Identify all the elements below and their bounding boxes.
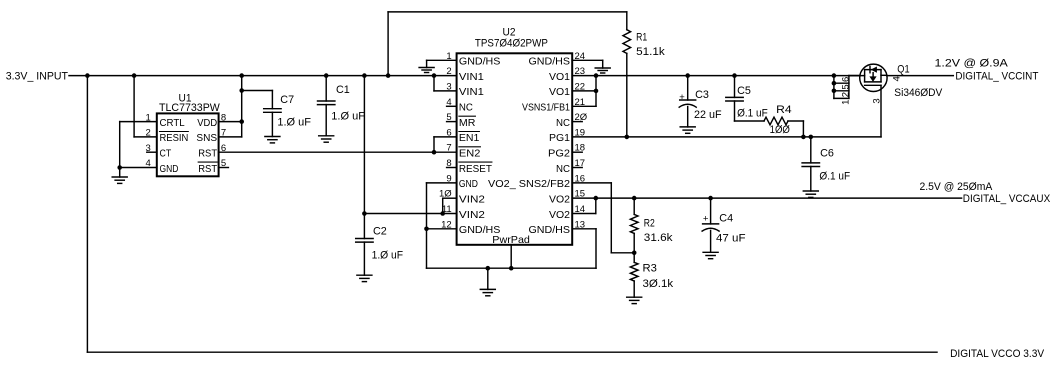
svg-text:VIN1: VIN1 [459,71,484,83]
U2 pin numbers left [439,51,452,231]
U1 overlines RESIN and RST [160,132,218,163]
wire C3 lead [687,76,689,100]
svg-text:1: 1 [840,100,851,105]
label C7 [277,94,311,129]
U2 pin numbers right [575,51,588,231]
wire R4 to PG1 line [788,121,803,137]
svg-text:RESET: RESET [459,163,493,175]
wire U2 VO1 pin22 / VSNS1 pin21 tie [572,76,596,107]
wire bottom ground bus [427,267,597,269]
wire C7 branch [242,91,273,109]
svg-text:23: 23 [575,66,586,77]
svg-text:6: 6 [840,77,851,82]
transistor Q1 [849,64,887,91]
U2 pin names right [488,56,570,237]
svg-text:R3: R3 [643,263,657,275]
wire 3.3V input rail [69,75,457,77]
svg-text:EN1: EN1 [459,132,480,144]
wire U1 GND pin4 [120,167,157,169]
svg-text:DIGITAL VCCO 3.3V: DIGITAL VCCO 3.3V [950,348,1045,360]
resistor R2 [630,198,638,253]
wire C6 to ground [810,167,812,192]
wire Q1 drain to VCCINT [887,75,954,77]
node DIGITAL VCCO 3.3V [950,348,1045,360]
wire C6 lead [810,137,812,163]
svg-text:6: 6 [221,143,226,154]
wire U2 VIN2 pin11 [364,213,456,215]
wire U1 RESIN riser [134,76,157,137]
op-amp U2 TPS70402PWP body [457,53,573,245]
wire U2 VO2 pin14 riser [572,198,596,213]
svg-text:14: 14 [575,204,586,215]
wire U2 VIN1 pin3 riser [434,76,457,91]
svg-text:12: 12 [441,219,452,230]
svg-text:DIGITAL_ VCCINT: DIGITAL_ VCCINT [955,71,1038,83]
svg-text:51.1k: 51.1k [636,46,665,58]
svg-text:Si346ØDV: Si346ØDV [894,87,943,99]
U1 pin numbers right [221,112,226,169]
svg-text:+: + [679,92,685,103]
U2 pin names left [459,56,501,237]
svg-text:16: 16 [575,173,586,184]
wire U2 GND/HS pin24 [572,60,603,68]
svg-text:GND: GND [160,163,179,175]
wire C4 to ground [710,230,712,252]
svg-text:2: 2 [146,128,151,139]
svg-text:Ø.1 uF: Ø.1 uF [819,170,850,182]
svg-text:3: 3 [446,81,451,92]
svg-text:R2: R2 [644,218,655,230]
svg-text:C6: C6 [820,147,834,159]
wire C3 to ground [687,107,689,127]
label Q1 [894,63,943,99]
ground bottom bus [480,268,495,296]
svg-text:GND/HS: GND/HS [529,56,571,68]
ground C6 [803,191,818,197]
svg-text:VO1: VO1 [549,86,570,98]
svg-text:31.6k: 31.6k [644,232,673,244]
svg-text:GND: GND [459,178,478,190]
wire VIN2 vertical (rail to C2) [363,76,365,239]
svg-text:1.Ø uF: 1.Ø uF [277,117,311,129]
svg-text:TPS7Ø4Ø2PWP: TPS7Ø4Ø2PWP [475,38,548,50]
svg-text:19: 19 [575,127,586,138]
ground R3 [627,297,642,303]
label C3 [679,89,722,121]
svg-text:VO2: VO2 [549,194,570,206]
resistor R3 [630,253,638,297]
svg-text:U2: U2 [503,26,516,38]
svg-text:2Ø: 2Ø [575,112,588,123]
svg-text:GND/HS: GND/HS [529,224,571,236]
U2 pin 5 stub [447,121,457,123]
wire top feed to R1 [388,12,627,76]
svg-text:1.2V @ Ø.9A: 1.2V @ Ø.9A [935,57,1009,69]
svg-text:NC: NC [459,102,473,114]
node DIGITAL_ VCCINT [935,57,1039,82]
ground U2 pin24 [595,68,610,73]
svg-text:7: 7 [221,128,226,139]
svg-text:22 uF: 22 uF [694,109,722,121]
label C6 [819,147,850,182]
wire C5 lead [734,76,736,98]
svg-text:1.Ø uF: 1.Ø uF [372,250,404,262]
resistor R1 [623,30,631,54]
svg-text:2: 2 [446,66,451,77]
label C2 [372,226,404,262]
wire PwrPad stub [510,245,512,268]
U1 pin numbers left [146,112,151,169]
svg-text:17: 17 [575,158,586,169]
svg-text:1: 1 [446,51,451,62]
svg-text:21: 21 [575,97,586,108]
wire VO2 rail [572,197,961,199]
svg-text:VO1: VO1 [549,71,570,83]
svg-text:1.Ø uF: 1.Ø uF [331,111,365,123]
svg-text:R1: R1 [636,32,647,44]
wire U2 GND/HS pin13 [572,229,596,268]
svg-text:2: 2 [840,92,851,97]
svg-text:4: 4 [892,76,903,81]
node DIGITAL_ VCCAUX [920,181,1051,205]
wire U1 CRTL to ground [120,122,157,168]
capacitor C3 (polarized) [679,100,696,107]
label R2 [644,218,673,244]
wire C2 to ground [363,242,365,275]
wire C1 to ground [325,105,327,136]
svg-text:GND/HS: GND/HS [459,56,501,68]
svg-text:VIN1: VIN1 [459,86,484,98]
wire PG1 line [572,136,881,138]
svg-text:MR: MR [459,117,476,129]
svg-text:PG1: PG1 [549,132,570,144]
svg-text:TLC7733PW: TLC7733PW [159,102,221,114]
op-amp U1 TLC7733PW body [157,113,219,176]
svg-text:VIN2: VIN2 [459,194,485,206]
label R1 [636,32,665,58]
svg-text:4: 4 [446,97,451,108]
svg-text:C7: C7 [280,94,294,106]
U1 pin 3 stub [147,151,157,153]
ground C2 [357,275,372,281]
ground U1 [112,168,127,184]
svg-text:DIGITAL_ VCCAUX: DIGITAL_ VCCAUX [963,193,1050,205]
wire drop to DIGITAL VCCO rail [86,76,88,353]
label C5 [737,85,768,120]
U2 overlines MR EN1 EN2 RESET [459,116,492,162]
svg-text:VO2_ SNS2/FB2: VO2_ SNS2/FB2 [488,178,570,190]
svg-text:1ØØ: 1ØØ [770,124,791,136]
svg-text:9: 9 [446,173,451,184]
svg-text:8: 8 [446,158,451,169]
svg-text:PG2: PG2 [548,148,570,160]
svg-text:+: + [703,214,709,225]
svg-text:SNS: SNS [196,132,217,144]
svg-text:CRTL: CRTL [160,117,185,129]
label U2 [475,26,548,246]
svg-text:8: 8 [221,112,226,123]
svg-text:RESIN: RESIN [160,132,189,144]
svg-text:5: 5 [840,84,851,89]
svg-text:R4: R4 [776,104,792,116]
wire R1 to PG1 line [626,53,628,136]
svg-text:47 uF: 47 uF [716,232,746,244]
ground U2 pin1 [419,68,434,73]
wire C7 to ground [271,112,273,136]
label C1 [331,84,365,123]
label C4 [703,213,746,245]
svg-text:RST: RST [198,148,217,160]
svg-text:C2: C2 [373,226,387,238]
U2 pin 8 stub [447,167,457,169]
svg-text:Ø.1 uF: Ø.1 uF [737,108,768,120]
U2 pin 4 stub [447,105,457,107]
svg-text:6: 6 [446,127,451,138]
svg-text:NC: NC [556,163,570,175]
svg-text:13: 13 [575,219,586,230]
capacitor C6 [802,163,819,167]
svg-text:C4: C4 [719,213,733,225]
svg-text:5: 5 [446,112,451,123]
ground C4 [703,252,718,258]
svg-text:C5: C5 [737,85,751,97]
svg-text:3: 3 [146,143,151,154]
svg-text:4: 4 [146,158,151,169]
capacitor C7 [264,109,281,113]
U1 pin names [160,117,218,175]
svg-text:VO2: VO2 [549,209,570,221]
svg-text:VSNS1/FB1: VSNS1/FB1 [522,102,570,114]
svg-text:C1: C1 [336,84,350,96]
svg-text:VDD: VDD [197,117,217,129]
wire Q1 source ladder [834,76,860,99]
svg-text:1Ø: 1Ø [439,189,452,200]
wire C5 to R4 [735,101,765,121]
U2 pin 18 stub [572,151,582,153]
wire Q1 gate to PG1 [880,85,882,137]
wire U2 EN1 pin6 [434,137,457,152]
svg-text:GND/HS: GND/HS [459,224,501,236]
label Q1 pin numbers [840,76,902,105]
capacitor C1 [318,101,335,105]
resistor R4 [764,117,788,125]
svg-text:CT: CT [160,148,172,160]
svg-text:RST: RST [198,163,217,175]
wire U1 VDD pin8 [219,121,242,123]
svg-text:3Ø.1k: 3Ø.1k [643,278,674,290]
wire VO1 rail [572,75,860,77]
svg-text:7: 7 [446,143,451,154]
wire DIGITAL VCCO 3.3V rail [87,351,937,353]
wire U2 VIN2 pin10 riser [443,198,457,213]
svg-text:3.3V_ INPUT: 3.3V_ INPUT [6,71,69,83]
ground C1 [319,136,334,142]
U2 pin 20 stub [572,121,582,123]
label U1 [159,92,221,114]
svg-text:18: 18 [575,143,586,154]
wire C1 lead [325,76,327,101]
capacitor C2 [356,239,373,243]
wire U2 GND pin9 down [427,183,457,268]
svg-text:C3: C3 [695,89,709,101]
ground C7 [265,137,280,143]
label R4 [770,104,792,136]
wire U1 SNS pin7 to rail [219,76,242,137]
svg-text:Q1: Q1 [897,63,909,75]
svg-text:15: 15 [575,189,586,200]
U1 pin 5 stub [219,167,229,169]
svg-text:VIN2: VIN2 [459,209,485,221]
wire U2 GND/HS pin1 [427,60,457,67]
wire C4 lead [710,198,712,224]
capacitor C5 [726,97,743,101]
wire U2 GND/HS pin12 [427,228,457,230]
svg-text:5: 5 [221,158,226,169]
svg-text:2.5V @ 25ØmA: 2.5V @ 25ØmA [920,181,994,193]
node 3.3V_ INPUT [6,71,69,83]
wire U2 SNS2/FB2 pin16 to divider [572,183,634,253]
svg-text:NC: NC [556,117,570,129]
svg-text:24: 24 [575,51,586,62]
svg-text:EN2: EN2 [459,148,481,160]
svg-text:1: 1 [146,112,151,123]
ground C3 [680,127,695,133]
capacitor C4 (polarized) [702,224,719,231]
U2 pin 17 stub [572,167,582,169]
svg-text:22: 22 [575,81,586,92]
label R3 [643,263,674,290]
wire U1 RST to U2 EN2 [219,151,457,153]
